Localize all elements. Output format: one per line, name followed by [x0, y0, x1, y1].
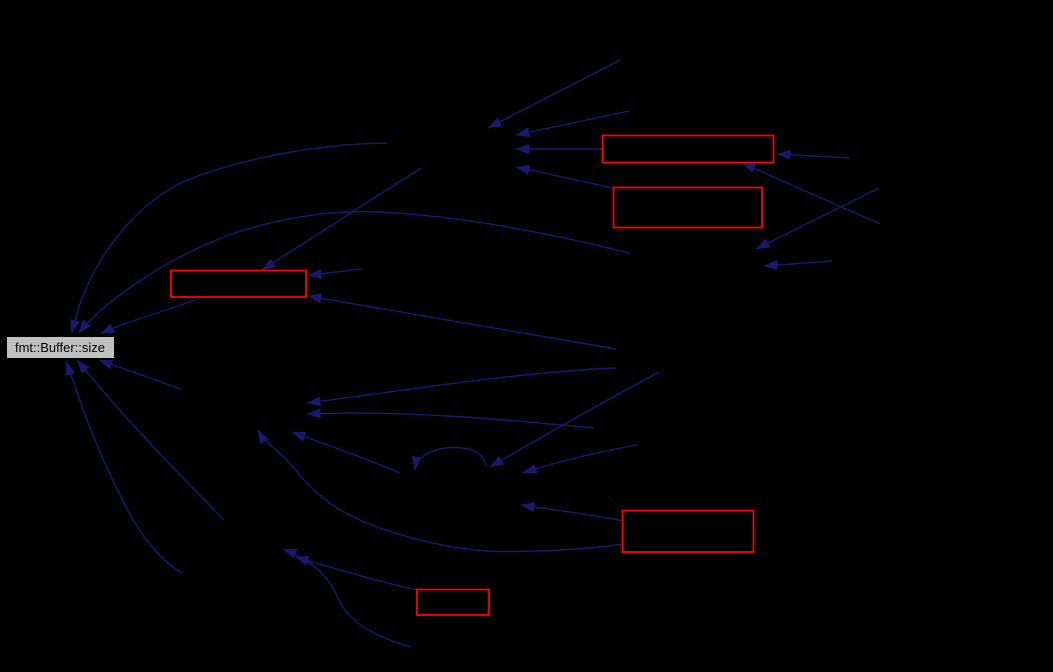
edge E5 into box1 right [777, 154, 849, 158]
edge E22 long curve from box4 up-left [258, 430, 623, 552]
edge E18 into node P right [523, 445, 637, 473]
edge E6 crossing down-left [756, 188, 879, 249]
edge E8 short arrow [764, 261, 832, 266]
edge E26 from box3 bottom to gray node top right [101, 297, 204, 334]
edge E2 into node A right [516, 111, 629, 135]
edge E20 from box5 to node L [295, 557, 417, 590]
node box1 red [603, 136, 774, 163]
svg-text:fmt::Buffer::size: fmt::Buffer::size [15, 340, 105, 355]
edge E23 curve into gray node bottom [67, 362, 183, 574]
edge E25 short into gray node bottom right [99, 360, 181, 389]
edge E1 into node A top [488, 60, 620, 128]
edge E19 from box4 to node P [521, 505, 623, 521]
edge E4 from box2 to node A [516, 167, 613, 188]
node box2 red [614, 188, 763, 228]
edge E10 long curve to gray node top [79, 212, 630, 334]
node box4 red [623, 511, 754, 553]
edge E24 straight into gray node bottom [77, 360, 224, 520]
edge E11 into box3 top [262, 168, 421, 270]
edge E16 short up-left arrow [292, 432, 400, 473]
edge E13 into box3 right lower [308, 296, 616, 349]
edge E17 steep into node P [490, 372, 659, 467]
node box5 red [417, 590, 489, 616]
edge E27 self loop on node P [415, 448, 486, 471]
edge E21 S-curve to node L [283, 549, 411, 647]
edge E15 into node N upper [307, 368, 616, 403]
edge E14 into node N [307, 413, 594, 428]
node fmt::Buffer::size gray [7, 337, 115, 359]
edge E9 long curve from node A to gray node top [72, 143, 388, 334]
node box3 red [171, 271, 306, 298]
edge E12 into box3 right [308, 269, 361, 276]
edge E7 into box1 bottom [742, 163, 880, 224]
edge E3 from box1 to node A [516, 148, 602, 150]
